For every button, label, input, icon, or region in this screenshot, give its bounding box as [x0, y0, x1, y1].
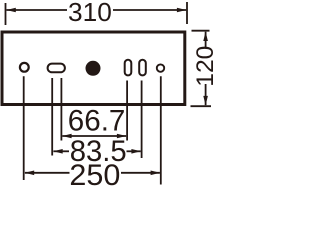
dimension 120: line upper segment with up arrow — [203, 32, 208, 48]
dimension 83.5: right line segment with right arrow — [127, 149, 141, 154]
extension line from vertical slot 1 — [126, 81, 128, 141]
dimension 83.5: left line segment with left arrow — [53, 149, 69, 154]
dimension 66.7: value label — [68, 105, 126, 138]
dimension 310: left extension line — [5, 3, 7, 25]
dimension 120: top extension tick — [192, 30, 210, 32]
dimension 120: value label (rotated) — [192, 46, 219, 87]
hole: vertical slot 2 — [139, 60, 146, 76]
hole: vertical slot 1 — [125, 60, 132, 76]
dimension 66.7: line with two arrows — [62, 134, 126, 139]
dimension 310: value label — [68, 0, 112, 27]
svg-text:66.7: 66.7 — [68, 105, 126, 138]
dimension 250: left line segment with left arrow — [25, 171, 70, 176]
hole: horizontal slot — [48, 64, 65, 73]
extension line from left round hole — [23, 76, 25, 180]
dimension 310: line right segment with right arrow — [113, 8, 186, 13]
dimension 120: line lower segment with down arrow — [203, 84, 208, 105]
extension line from horizontal slot left center — [51, 78, 53, 156]
dimension 310: line left segment with left arrow — [6, 8, 67, 13]
extension line from vertical slot 2 — [141, 81, 143, 159]
dimension 250: right line segment with right arrow — [121, 171, 160, 176]
hole: right round hole — [157, 64, 164, 71]
svg-text:310: 310 — [68, 0, 112, 27]
dimension 83.5: value label — [70, 135, 127, 168]
dimension 310: right extension line — [186, 2, 188, 24]
dimension 120: bottom extension tick — [191, 105, 212, 107]
extension line from right round hole — [160, 76, 162, 184]
plate outline — [2, 32, 185, 105]
extension line from horizontal slot right center — [60, 78, 62, 141]
svg-text:250: 250 — [69, 159, 120, 192]
svg-text:120: 120 — [192, 46, 219, 87]
dimension 250: value label — [69, 159, 120, 192]
hole: left round hole — [20, 63, 29, 72]
hole: center filled knockout — [86, 61, 101, 76]
